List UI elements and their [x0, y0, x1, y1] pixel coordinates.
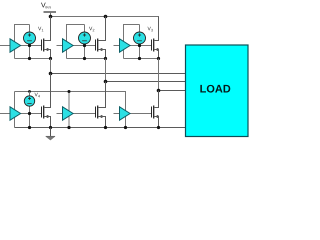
- wire phase A vertical: [50, 59, 52, 108]
- wire U1 bootstrap loop: [15, 25, 30, 59]
- wire Q3 source: [154, 50, 158, 59]
- wire V1 top stem: [29, 25, 31, 34]
- label V3: [148, 27, 153, 32]
- wire U3 input stub: [114, 45, 120, 47]
- wire U6 input stub: [114, 113, 120, 115]
- junction bus / V4 stem: [28, 90, 31, 93]
- wire V1 bottom stem: [29, 43, 31, 46]
- junction bus / U5 drop: [68, 90, 71, 93]
- wire low-side driver bus: [15, 92, 126, 111]
- transistor Q4: [42, 106, 49, 119]
- VBUS label: [41, 3, 51, 9]
- wire Q3 drain: [154, 17, 158, 41]
- load: [186, 45, 249, 137]
- wire V3 top stem: [139, 25, 141, 34]
- transistor Q6: [152, 106, 159, 119]
- junction rail / V4 ref: [28, 126, 31, 129]
- transistor Q3: [152, 39, 159, 52]
- wire U5 ground drop: [68, 110, 70, 128]
- wire phase C vertical: [158, 59, 160, 108]
- wire U5 supply drop: [68, 92, 70, 111]
- junction rail / U5 ground: [67, 126, 70, 129]
- gate driver buffer U1: [10, 39, 21, 52]
- ground rail: [15, 127, 187, 129]
- junction rail / U6 ground: [124, 126, 127, 129]
- wire U2 reference drop: [84, 46, 86, 59]
- transistor Q1: [42, 39, 49, 52]
- wire Q1 source line: [15, 58, 51, 60]
- wire Q4 source: [44, 117, 50, 128]
- wire V2 bottom stem: [84, 43, 86, 46]
- voltage source V4: [24, 96, 34, 106]
- junction U2 ref / source line: [83, 57, 86, 60]
- wire U5 input stub: [57, 113, 63, 115]
- junction U2 output node: [83, 44, 86, 47]
- wire VBUS rail: [51, 16, 160, 18]
- junction phase A: [49, 72, 53, 76]
- wire U6 ground drop: [125, 110, 127, 128]
- wire VBUS stem: [50, 12, 52, 17]
- wire phase B vertical: [105, 59, 107, 108]
- label V2: [89, 27, 94, 32]
- junction U4 output node: [28, 112, 31, 115]
- wire U3 output to Q3 gate: [130, 45, 152, 47]
- wire U1 output to Q1 gate: [21, 45, 42, 47]
- wire Q4 drain: [44, 74, 50, 108]
- wire Q5 source: [98, 117, 105, 128]
- wire Q6 drain: [154, 91, 158, 108]
- wire V2 top stem: [84, 25, 86, 34]
- wire U2 output to Q2 gate: [73, 45, 96, 47]
- wire phase B to load: [106, 81, 187, 83]
- wire V4 top stem: [29, 92, 31, 97]
- junction rail / Q6 source: [157, 126, 160, 129]
- junction U1 ref / source line: [28, 57, 31, 60]
- wire Q2 drain: [98, 17, 105, 41]
- junction U1 output node: [28, 44, 31, 47]
- wire Q2 source line: [67, 58, 106, 60]
- junction rail / Q1 drain: [49, 15, 53, 19]
- junction U3 ref / source line: [138, 57, 141, 60]
- wire U6 output to Q6 gate: [130, 113, 152, 115]
- VBUS supply terminal bar: [44, 11, 57, 13]
- wire Q1 source: [44, 50, 50, 59]
- junction Q1 source / phase: [49, 57, 52, 60]
- ground: [46, 128, 55, 141]
- wire Q3 source line: [124, 58, 159, 60]
- voltage source V1: [24, 32, 36, 44]
- wire U1 reference drop: [29, 46, 31, 59]
- voltage source V2: [79, 32, 91, 44]
- junction rail / Q2 drain: [104, 15, 108, 19]
- gate driver buffer U2: [63, 39, 74, 52]
- wire Q2 source: [98, 50, 105, 59]
- wire U1 input stub: [0, 45, 10, 47]
- wire U3 bootstrap loop: [124, 25, 140, 59]
- gate driver buffer U3: [120, 39, 131, 52]
- wire U3 reference drop: [139, 46, 141, 59]
- transistor Q5: [96, 106, 103, 119]
- wire U5 output to Q5 gate: [73, 113, 96, 115]
- wire U4 output to Q4 gate: [21, 113, 42, 115]
- wire V4 bottom stem / reference drop: [29, 105, 31, 127]
- junction phase B: [104, 80, 108, 84]
- junction rail / Q4 source: [49, 126, 52, 129]
- wire Q5 drain: [98, 82, 105, 108]
- wire Q6 source: [154, 117, 158, 128]
- gate driver buffer U4: [10, 107, 21, 120]
- wire U2 input stub: [57, 45, 63, 47]
- wire phase C to load: [159, 90, 187, 92]
- voltage source V3: [134, 32, 146, 44]
- wire U4 left vertical to ground rail: [14, 92, 16, 128]
- junction rail / Q5 source: [104, 126, 107, 129]
- label V1: [38, 27, 43, 32]
- wire U4 input stub: [0, 113, 10, 115]
- gate driver buffer U5: [63, 107, 74, 120]
- wire phase A to load: [51, 73, 187, 75]
- gate driver buffer U6: [120, 107, 131, 120]
- wire V3 bottom stem: [139, 43, 141, 46]
- wire Q1 drain: [44, 17, 50, 41]
- junction Q2 source / phase: [104, 57, 107, 60]
- transistor Q2: [96, 39, 103, 52]
- junction phase C: [157, 89, 161, 93]
- junction Q3 source / phase: [157, 57, 160, 60]
- label V4: [35, 93, 40, 98]
- junction U3 output node: [138, 44, 141, 47]
- wire U2 bootstrap loop: [67, 25, 85, 59]
